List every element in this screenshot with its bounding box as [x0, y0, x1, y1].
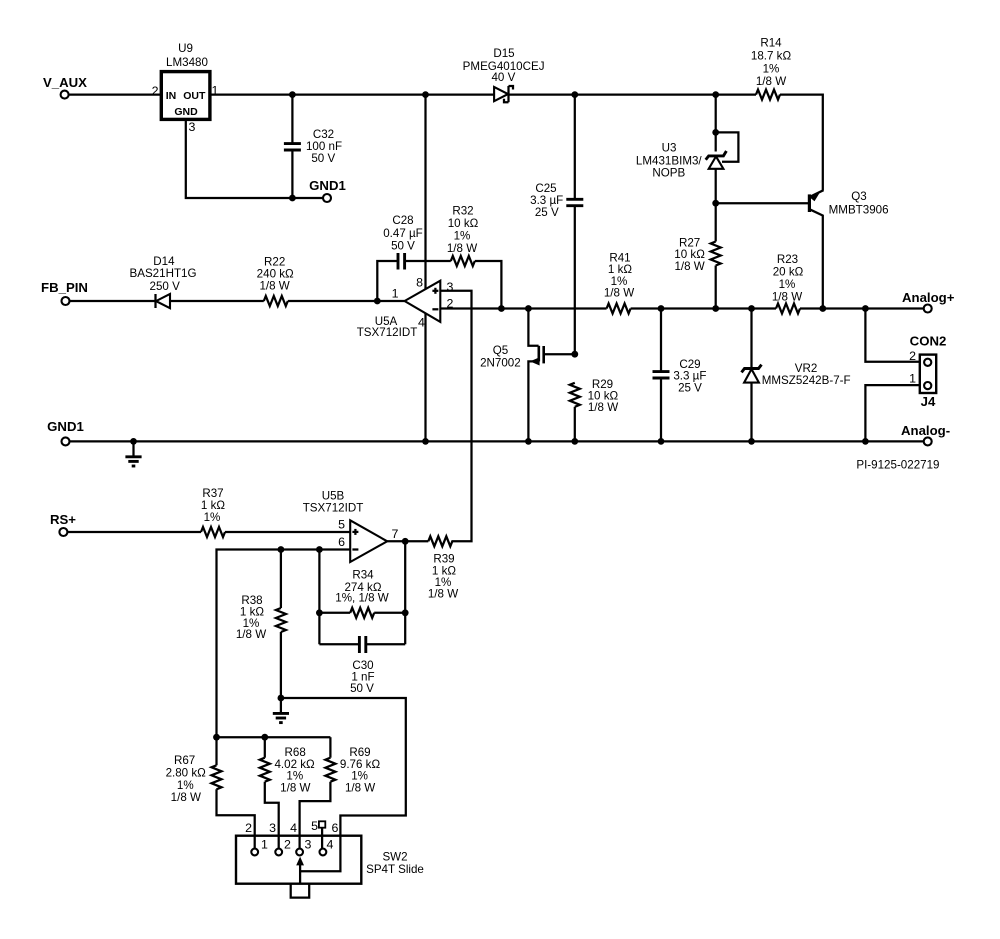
- node C29 bottom junction: [658, 438, 665, 445]
- svg-text:Q3: Q3: [851, 190, 866, 203]
- svg-text:25 V: 25 V: [678, 381, 702, 394]
- svg-text:PI-9125-022719: PI-9125-022719: [856, 459, 939, 472]
- wire R34 right branch: [404, 541, 406, 644]
- svg-text:D14: D14: [153, 255, 175, 268]
- svg-text:TSX712IDT: TSX712IDT: [357, 326, 418, 339]
- svg-text:4: 4: [418, 316, 425, 330]
- svg-text:1/8 W: 1/8 W: [345, 782, 375, 795]
- svg-text:D15: D15: [493, 47, 514, 60]
- node Q5 drain junction: [525, 305, 532, 312]
- svg-text:1/8 W: 1/8 W: [236, 628, 266, 641]
- wire ground row: [70, 440, 924, 442]
- wire R34 left branch: [318, 550, 320, 645]
- wire U5B output to R39: [387, 540, 428, 542]
- svg-text:Analog-: Analog-: [901, 423, 950, 438]
- node R38 top junction: [278, 546, 285, 553]
- terminal RS+: [50, 512, 76, 536]
- node U3/R14 junction: [712, 91, 719, 98]
- svg-text:FB_PIN: FB_PIN: [41, 280, 88, 295]
- svg-text:R67: R67: [174, 754, 195, 767]
- svg-text:R34: R34: [352, 569, 374, 582]
- node R68 top junction: [261, 734, 268, 741]
- svg-text:2: 2: [245, 821, 252, 835]
- wire U3 anode to Q3 base: [716, 202, 809, 204]
- svg-text:3: 3: [269, 821, 276, 835]
- switch wiper arrow: [296, 857, 304, 884]
- svg-text:C32: C32: [313, 128, 334, 141]
- svg-text:R23: R23: [777, 253, 798, 266]
- op-amp U5B: [303, 490, 399, 563]
- svg-text:J4: J4: [921, 394, 936, 409]
- wire R37 to U5B pin5: [225, 531, 350, 533]
- resistor R41: [604, 251, 634, 313]
- svg-text:CON2: CON2: [910, 334, 947, 349]
- node ground symbol junction: [130, 438, 137, 445]
- node U5A pin4 junction: [422, 438, 429, 445]
- svg-text:18.7 kΩ: 18.7 kΩ: [751, 50, 792, 63]
- svg-text:BAS21HT1G: BAS21HT1G: [129, 267, 196, 280]
- svg-text:SP4T Slide: SP4T Slide: [366, 863, 424, 876]
- svg-text:50 V: 50 V: [391, 240, 415, 253]
- svg-text:1%: 1%: [454, 230, 471, 243]
- node R34 left top junction: [316, 546, 323, 553]
- resistor R14: [751, 37, 792, 100]
- svg-text:6: 6: [338, 535, 345, 549]
- wire U5A pin4 to ground row: [424, 314, 426, 442]
- svg-text:50 V: 50 V: [350, 682, 374, 695]
- node CON2 pin1 junction: [862, 438, 869, 445]
- wire V_AUX to U9 pin2: [69, 93, 162, 95]
- ground 2: [273, 698, 289, 723]
- regulator U9: [152, 42, 219, 134]
- svg-text:7: 7: [392, 527, 399, 541]
- svg-text:25 V: 25 V: [535, 206, 559, 219]
- svg-text:1/8 W: 1/8 W: [772, 291, 802, 304]
- svg-text:6: 6: [332, 821, 339, 835]
- wire D15 cathode to R14: [509, 93, 757, 95]
- node C32 top junction: [289, 91, 296, 98]
- capacitor C28: [383, 214, 423, 270]
- svg-text:GND: GND: [174, 106, 198, 118]
- node R27 junction: [712, 305, 719, 312]
- ground: [125, 441, 141, 466]
- svg-text:SW2: SW2: [382, 851, 407, 864]
- svg-text:3: 3: [305, 838, 312, 852]
- node U5A output / feedback junction: [374, 298, 381, 305]
- svg-text:R32: R32: [452, 205, 473, 218]
- wire FB_PIN to D14: [70, 300, 156, 302]
- switch SW2: [236, 819, 424, 884]
- node feedback junction main row: [498, 305, 505, 312]
- svg-text:IN: IN: [166, 90, 177, 102]
- resistor R39: [428, 536, 458, 600]
- wire D14 to R22: [170, 300, 264, 302]
- wire U5B pin6 row: [217, 550, 351, 738]
- pin 5 stub square: [319, 821, 325, 848]
- terminal Analog+: [902, 290, 955, 313]
- svg-text:10 kΩ: 10 kΩ: [448, 217, 479, 230]
- svg-text:GND1: GND1: [47, 419, 84, 434]
- op-amp U5A: [357, 276, 454, 340]
- resistor R37: [201, 487, 225, 537]
- shunt reference U3: [636, 95, 726, 204]
- capacitor C32: [284, 95, 342, 198]
- svg-text:1/8 W: 1/8 W: [259, 280, 289, 293]
- resistor R68: [260, 737, 315, 848]
- resistor R27: [674, 203, 720, 308]
- svg-text:R14: R14: [760, 37, 782, 50]
- wire R14 to Q3 emitter: [780, 95, 823, 191]
- wire U3 cathode feedback box: [716, 132, 739, 161]
- svg-text:4: 4: [327, 838, 334, 852]
- svg-text:2: 2: [152, 84, 159, 98]
- svg-text:MMSZ5242B-7-F: MMSZ5242B-7-F: [762, 374, 851, 387]
- terminal V_AUX: [43, 75, 87, 99]
- resistor R38: [236, 550, 286, 699]
- svg-text:1%: 1%: [204, 511, 221, 524]
- svg-text:GND1: GND1: [309, 178, 346, 193]
- svg-text:5: 5: [311, 819, 318, 833]
- svg-text:3: 3: [189, 120, 196, 134]
- svg-text:2N7002: 2N7002: [480, 357, 521, 370]
- wire U5A pin8 supply: [424, 95, 426, 290]
- node Q5 source junction: [525, 438, 532, 445]
- node R67 top junction: [213, 734, 220, 741]
- wire divider top row: [217, 736, 331, 738]
- connector CON2 J4: [909, 334, 946, 410]
- svg-text:NOPB: NOPB: [652, 166, 685, 179]
- transistor Q3: [809, 190, 888, 309]
- terminal FB_PIN: [41, 280, 88, 305]
- diode D15: [463, 47, 545, 102]
- terminal Analog-: [901, 423, 950, 445]
- switch actuator tab: [291, 884, 310, 898]
- resistor R67: [166, 737, 255, 848]
- svg-text:TSX712IDT: TSX712IDT: [303, 502, 364, 515]
- svg-text:1%: 1%: [779, 278, 796, 291]
- wire R23 to Analog+: [800, 307, 924, 309]
- svg-text:50 V: 50 V: [311, 152, 335, 165]
- node Q3 collector junction: [819, 305, 826, 312]
- capacitor C30: [319, 636, 405, 695]
- node Q5 gate junction: [571, 351, 578, 358]
- resistor R69: [300, 737, 381, 848]
- svg-text:5: 5: [338, 518, 345, 532]
- node R29 bottom junction: [571, 438, 578, 445]
- wire U9 output to D15 anode: [210, 93, 494, 95]
- terminal GND1 (bottom): [47, 419, 84, 445]
- capacitor C29: [653, 309, 707, 442]
- svg-text:8: 8: [416, 276, 423, 290]
- wire R22 to U5A output pin1: [288, 300, 405, 302]
- svg-text:1: 1: [909, 372, 916, 386]
- svg-text:40 V: 40 V: [491, 71, 515, 84]
- node U3 cathode junction: [712, 129, 719, 136]
- svg-text:1/8 W: 1/8 W: [674, 260, 704, 273]
- svg-text:20 kΩ: 20 kΩ: [773, 266, 804, 279]
- svg-text:1/8 W: 1/8 W: [604, 286, 634, 299]
- node C25 branch junction: [571, 91, 578, 98]
- wire R41 to R23: [631, 307, 776, 309]
- wire feedback up from output: [377, 261, 397, 301]
- node R34 left junction: [316, 609, 323, 616]
- svg-text:2: 2: [909, 349, 916, 363]
- wire CON2 pin1: [865, 385, 919, 441]
- wire C28 to R32: [405, 260, 450, 262]
- svg-text:1/8 W: 1/8 W: [171, 791, 201, 804]
- svg-text:1: 1: [261, 838, 268, 852]
- node U5B output junction: [402, 538, 409, 545]
- svg-text:0.47 µF: 0.47 µF: [383, 227, 423, 240]
- svg-text:RS+: RS+: [50, 512, 76, 527]
- wire R38 bottom to switch common: [281, 698, 406, 871]
- wire RS+ to R37: [68, 531, 201, 533]
- svg-text:2: 2: [284, 838, 291, 852]
- resistor R23: [772, 253, 804, 314]
- node U3 anode / Q3 base junction: [712, 200, 719, 207]
- resistor R29: [570, 378, 619, 441]
- svg-text:4: 4: [290, 821, 297, 835]
- svg-text:MMBT3906: MMBT3906: [829, 203, 889, 216]
- terminal GND1 (top): [309, 178, 346, 202]
- svg-text:1/8 W: 1/8 W: [756, 75, 786, 88]
- svg-text:250 V: 250 V: [150, 280, 181, 293]
- capacitor C25: [530, 95, 583, 355]
- svg-text:1%: 1%: [763, 63, 780, 76]
- svg-text:V_AUX: V_AUX: [43, 75, 87, 90]
- node R34 right junction: [402, 609, 409, 616]
- resistor R34: [319, 569, 405, 618]
- svg-text:Analog+: Analog+: [902, 290, 955, 305]
- svg-text:1/8 W: 1/8 W: [447, 242, 477, 255]
- svg-text:Q5: Q5: [493, 344, 508, 357]
- svg-text:1: 1: [392, 287, 399, 301]
- svg-text:2.80 kΩ: 2.80 kΩ: [166, 767, 207, 780]
- svg-text:1/8 W: 1/8 W: [588, 401, 618, 414]
- node GND1 junction: [289, 195, 296, 202]
- svg-text:U3: U3: [662, 142, 677, 155]
- wire U5A pin3 to R39: [440, 291, 471, 542]
- node R38 bottom junction: [278, 695, 285, 702]
- resistor R32: [447, 205, 479, 267]
- node VR2 bottom junction: [748, 438, 755, 445]
- svg-text:1/8 W: 1/8 W: [428, 588, 458, 601]
- resistor R22: [257, 256, 294, 306]
- diode D14: [129, 255, 196, 308]
- wire U9 pin3 to GND1: [186, 119, 323, 198]
- svg-text:U9: U9: [178, 42, 193, 55]
- node U5A pin8 junction: [422, 91, 429, 98]
- svg-text:1/8 W: 1/8 W: [280, 782, 310, 795]
- node C29 junction: [658, 305, 665, 312]
- svg-text:OUT: OUT: [183, 90, 206, 102]
- wire CON2 pin2: [865, 309, 919, 362]
- svg-text:VR2: VR2: [795, 362, 818, 375]
- transistor Q5: [480, 309, 575, 442]
- svg-text:LM3480: LM3480: [166, 56, 208, 69]
- svg-text:1%, 1/8 W: 1%, 1/8 W: [335, 592, 389, 605]
- wire main row U5A pin2 to R41: [440, 307, 606, 309]
- zener VR2: [742, 309, 851, 442]
- wire R32 down to inverting input row: [475, 261, 502, 309]
- svg-text:C28: C28: [392, 214, 413, 227]
- svg-text:C25: C25: [535, 182, 556, 195]
- node CON2 pin2 junction: [862, 305, 869, 312]
- node VR2 junction: [748, 305, 755, 312]
